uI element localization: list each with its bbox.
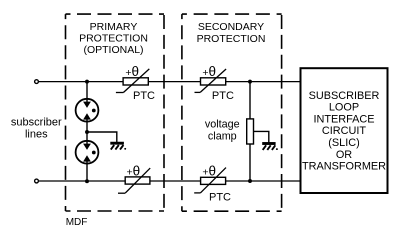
wire primary vertical (GDT string) [86, 82, 88, 181]
svg-text:TRANSFORMER: TRANSFORMER [302, 161, 386, 173]
svg-text:lines: lines [25, 128, 48, 140]
svg-text:MDF: MDF [66, 217, 88, 228]
wire GDT midpoint to primary ground [87, 132, 117, 143]
junction node top wire / clamp [248, 80, 252, 84]
primary ground [110, 143, 126, 150]
gas discharge tube GDT1 [76, 99, 99, 122]
wire voltage clamp vertical [249, 82, 251, 181]
svg-text:+θ: +θ [202, 64, 216, 79]
PTC thermistor RT2 (primary, ring side) [118, 168, 150, 193]
secondary protection dashed box [182, 14, 282, 211]
svg-text:OR: OR [336, 149, 352, 161]
svg-text:+θ: +θ [125, 64, 139, 79]
svg-text:PTC: PTC [133, 90, 155, 102]
junction node top wire / GDT string [85, 80, 89, 84]
gas discharge tube GDT2 [76, 141, 99, 164]
terminal bottom [35, 179, 39, 183]
svg-text:voltage: voltage [205, 119, 240, 131]
svg-text:+θ: +θ [126, 163, 140, 178]
svg-text:SECONDARY: SECONDARY [198, 21, 264, 33]
junction node between GDTs [85, 130, 89, 134]
svg-text:PRIMARY: PRIMARY [90, 21, 138, 33]
secondary ground [262, 144, 278, 151]
svg-text:clamp: clamp [208, 130, 237, 142]
bottom subscriber line wire (ring) [39, 180, 301, 182]
PTC thermistor RT4 (secondary, ring side) [194, 168, 226, 193]
svg-text:+θ: +θ [202, 163, 216, 178]
junction node bottom wire / GDT string [85, 179, 89, 183]
svg-text:CIRCUIT: CIRCUIT [322, 125, 367, 137]
svg-text:PTC: PTC [209, 192, 231, 204]
svg-text:PROTECTION: PROTECTION [79, 33, 148, 45]
svg-text:PTC: PTC [212, 90, 234, 102]
svg-text:subscriber: subscriber [11, 116, 62, 128]
svg-text:SUBSCRIBER: SUBSCRIBER [309, 90, 380, 102]
primary protection dashed box [66, 14, 165, 211]
svg-text:PROTECTION: PROTECTION [197, 33, 266, 45]
SLIC box U1 [301, 68, 388, 193]
top subscriber line wire (tip) [39, 81, 301, 83]
svg-text:(SLIC): (SLIC) [328, 137, 359, 149]
terminal top [35, 80, 39, 84]
voltage clamp VR1 [247, 119, 254, 144]
junction node bottom wire / clamp [248, 179, 252, 183]
svg-text:INTERFACE: INTERFACE [313, 113, 374, 125]
wire clamp to secondary ground [254, 131, 269, 142]
PTC thermistor RT3 (secondary, tip side) [195, 69, 227, 92]
svg-text:LOOP: LOOP [329, 102, 359, 114]
svg-text:(OPTIONAL): (OPTIONAL) [83, 44, 143, 56]
PTC thermistor RT1 (primary, tip side) [116, 69, 149, 93]
